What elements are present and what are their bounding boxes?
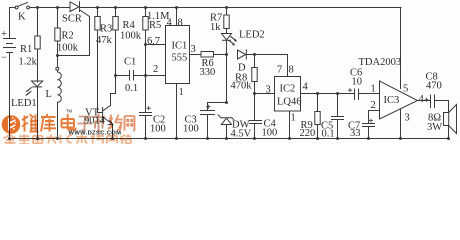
svg-text:47k: 47k xyxy=(96,35,113,46)
svg-text:+: + xyxy=(1,29,7,40)
svg-text:LED2: LED2 xyxy=(239,30,265,41)
svg-text:4: 4 xyxy=(419,94,425,105)
svg-text:33: 33 xyxy=(350,128,361,139)
svg-text:1: 1 xyxy=(291,113,296,124)
svg-text:100k: 100k xyxy=(120,31,142,42)
svg-text:TDA2003: TDA2003 xyxy=(359,57,402,68)
svg-text:0.1: 0.1 xyxy=(322,129,335,140)
svg-text:IC3: IC3 xyxy=(384,95,400,106)
svg-text:1.2k: 1.2k xyxy=(19,57,38,68)
svg-text:LQ46: LQ46 xyxy=(277,97,302,108)
svg-text:R4: R4 xyxy=(123,20,136,31)
svg-text:1: 1 xyxy=(371,84,376,95)
svg-text:100: 100 xyxy=(150,124,166,135)
svg-text:100k: 100k xyxy=(57,43,79,54)
svg-text:IC2: IC2 xyxy=(280,84,296,95)
svg-text:R3: R3 xyxy=(100,24,112,35)
svg-text:4: 4 xyxy=(167,18,173,29)
svg-text:7: 7 xyxy=(277,65,282,76)
svg-text:L: L xyxy=(46,89,52,100)
svg-text:1k: 1k xyxy=(210,22,221,33)
svg-text:8: 8 xyxy=(178,18,183,29)
svg-text:3W: 3W xyxy=(427,122,442,133)
svg-text:5: 5 xyxy=(403,84,408,95)
svg-text:100: 100 xyxy=(262,128,278,139)
svg-text:6,7: 6,7 xyxy=(147,36,160,47)
svg-text:IC1: IC1 xyxy=(172,41,188,52)
svg-text:3: 3 xyxy=(405,113,410,124)
svg-text:3: 3 xyxy=(191,44,196,55)
svg-text:330: 330 xyxy=(200,67,216,78)
svg-text:C1: C1 xyxy=(124,57,136,68)
svg-text:K: K xyxy=(18,12,26,23)
svg-text:470: 470 xyxy=(426,81,442,92)
svg-text:−: − xyxy=(1,53,7,64)
svg-text:3: 3 xyxy=(266,85,271,96)
svg-text:R5: R5 xyxy=(149,20,161,31)
svg-text:10: 10 xyxy=(352,77,363,88)
svg-text:0.1: 0.1 xyxy=(125,83,138,94)
svg-text:TM: TM xyxy=(66,109,73,114)
svg-text:220: 220 xyxy=(300,128,316,139)
svg-text:2: 2 xyxy=(371,100,376,111)
svg-text:R2: R2 xyxy=(62,31,74,42)
svg-text:2: 2 xyxy=(153,64,158,75)
svg-text:4.5V: 4.5V xyxy=(231,129,252,140)
svg-text:100: 100 xyxy=(183,124,199,135)
svg-text:LED1: LED1 xyxy=(11,98,37,109)
svg-text:8: 8 xyxy=(289,65,294,76)
svg-text:4: 4 xyxy=(303,82,309,93)
svg-text:555: 555 xyxy=(172,53,188,64)
svg-text:470k: 470k xyxy=(231,81,253,92)
svg-text:1: 1 xyxy=(179,87,184,98)
svg-text:R1: R1 xyxy=(20,44,32,55)
svg-text:SCR: SCR xyxy=(62,14,82,25)
